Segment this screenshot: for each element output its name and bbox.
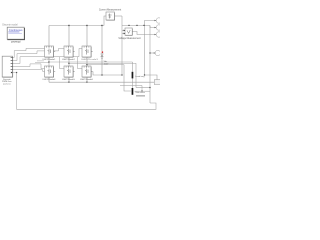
scope block (powergui) (7, 27, 24, 43)
IGBT5 block (62, 66, 75, 81)
junction node meas bottom (121, 74, 122, 75)
svg-text:IGBT/Diode3: IGBT/Diode3 (81, 59, 98, 61)
junction node bus-IGBT3 (86, 25, 87, 26)
background (0, 0, 160, 120)
wire: battery top lead (101, 26, 103, 52)
outport 4 (154, 50, 161, 55)
wire: outport2 feed (150, 26, 156, 28)
current measurement block top (99, 9, 122, 21)
wire: outport1 feed (145, 21, 156, 26)
wire: phase B midpoint (68, 57, 70, 66)
svg-text:IGBT/Diode4: IGBT/Diode4 (43, 79, 56, 81)
wire: load A chain upper (132, 62, 134, 72)
wire: gate riser block5 (60, 57, 65, 69)
wire: outport4 feed (150, 52, 155, 54)
wire: phase B down (135, 63, 137, 87)
svg-text:(pulses): (pulses) (3, 83, 11, 85)
wire: Vab out (135, 90, 150, 92)
IGBT4 block (43, 66, 56, 81)
wire: mid rail vertical (144, 26, 146, 76)
junction node rail 53 (149, 52, 150, 53)
wire: meas input stub 1 (122, 29, 125, 31)
svg-text:Continuous: Continuous (9, 28, 23, 32)
wire: bar1 bottom jog (120, 86, 142, 92)
svg-text:Vab meas: Vab meas (135, 92, 146, 94)
wire: feedback loop (13, 73, 156, 110)
wire: right rail vertical (149, 26, 151, 104)
svg-text:powergui: powergui (11, 40, 21, 43)
junction node bus-IGBT2 (68, 25, 69, 26)
port stub 3 (11, 63, 13, 65)
svg-text:IGBT/Diode1: IGBT/Diode1 (43, 59, 56, 61)
load block right edge (154, 80, 161, 85)
svg-text:Load neg: Load neg (135, 76, 145, 78)
junction node phase B (68, 63, 69, 64)
wire: IGBT4 emitter drop (48, 77, 50, 82)
port stub 1 (11, 57, 13, 59)
wire: measurement vertical (121, 16, 123, 75)
capacitor bar 2 (132, 88, 146, 97)
wire: gate g3 staircase (13, 48, 82, 63)
wire: drop to IGBT1 collector (48, 26, 50, 47)
wire: filler segment a (35, 61, 49, 63)
wire: DC+ top bus left (49, 25, 104, 27)
svg-text:IGBT/Diode5: IGBT/Diode5 (62, 79, 75, 81)
subsystem block (control) (2, 56, 13, 85)
IGBT1 block (43, 46, 56, 61)
battery Vdc (101, 51, 109, 65)
wire: drop to IGBT2 collector (68, 26, 70, 47)
wire: outport3 feed (132, 32, 155, 35)
IGBT2 block (62, 46, 75, 61)
IGBT3 block (81, 46, 98, 61)
wire: current meas right lead (115, 15, 123, 17)
wire: phase B tap (69, 62, 136, 64)
wire: phase A tap (49, 61, 133, 63)
junction node bus right 3 (143, 25, 144, 26)
junction node phase C (86, 64, 87, 65)
wire: DC- to measurement (93, 72, 122, 76)
wire: phase C midpoint (86, 57, 88, 66)
capacitor bar 1 (132, 72, 146, 79)
wire: gate g2 staircase (13, 48, 64, 60)
svg-text:100V: 100V (104, 63, 109, 65)
port arrow input (11, 72, 13, 74)
junction node bottom bus 2 (86, 82, 87, 83)
port stub 4 (11, 66, 13, 68)
outport 2 (155, 25, 162, 30)
junction node bottom bus 1 (68, 82, 69, 83)
wire: drop to IGBT3 collector (86, 26, 88, 47)
junction node rail 75 (144, 74, 145, 75)
wire: phase A midpoint (48, 57, 50, 66)
wire: DC+ top bus right (122, 25, 150, 27)
junction node bus right 1 (128, 25, 129, 26)
svg-text:IGBT/Diode6: IGBT/Diode6 (80, 79, 93, 81)
wire: battery bottom lead (101, 59, 103, 75)
outport 3 (155, 32, 162, 37)
svg-text:Discrete model: Discrete model (2, 24, 18, 27)
wire: gate g5 staircase (13, 70, 45, 72)
wire: gate g4 staircase (13, 64, 45, 69)
IGBT6 block (80, 66, 93, 81)
port stub 2 (11, 60, 13, 62)
wire: phase C tap (87, 64, 124, 66)
wire: IGBT5 emitter drop (68, 77, 70, 82)
wire: phase C down to Vab (124, 65, 131, 91)
wire: phase B to rail (136, 87, 150, 89)
junction node vab jog (141, 90, 142, 91)
wire: meas input stub 2 (122, 32, 125, 34)
wire: right edge jog (145, 75, 158, 82)
svg-text:Current Measurement: Current Measurement (99, 9, 122, 12)
wire: gate riser block6 (78, 57, 83, 69)
junction node phase A (48, 61, 49, 62)
svg-text:Voltage Measurement: Voltage Measurement (118, 37, 141, 40)
junction node bus-battery (101, 25, 102, 26)
junction node rail 87 (149, 87, 150, 88)
junction node feedback tap (16, 72, 17, 73)
wire: filler segment b (37, 60, 44, 62)
wire: DC- bottom bus (49, 81, 160, 83)
junction node bus right 2 (136, 25, 137, 26)
wire: current meas left lead (104, 16, 106, 26)
voltage measurement block (118, 28, 141, 40)
junction node battery minus (101, 74, 102, 75)
outport 1 (155, 18, 162, 23)
port stub 5 (11, 69, 13, 71)
wire: gate g1 staircase (13, 48, 45, 57)
wire: load A chain lower (132, 78, 134, 88)
svg-text:IGBT/Diode2: IGBT/Diode2 (62, 59, 75, 61)
wire: IGBT6 emitter drop (86, 77, 88, 82)
